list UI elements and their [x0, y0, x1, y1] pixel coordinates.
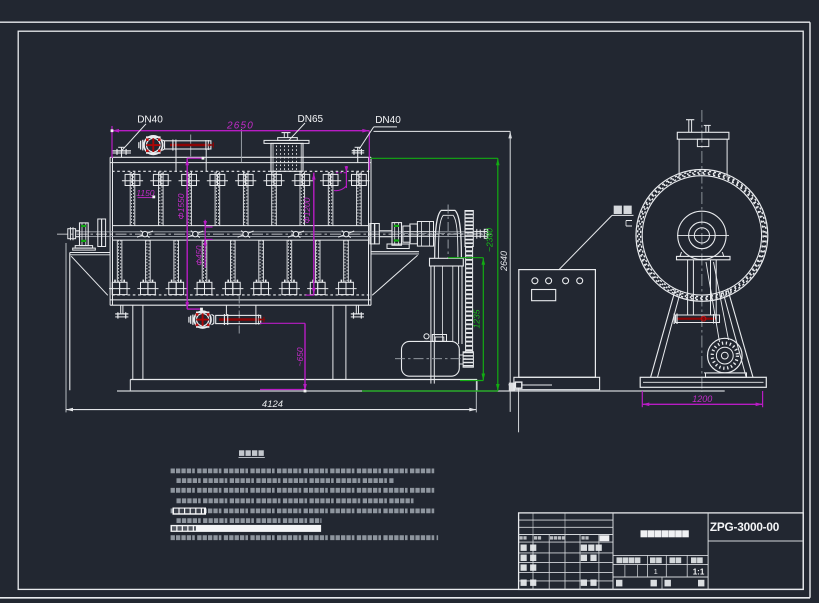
svg-text:1:1: 1:1 — [693, 568, 705, 577]
svg-text:Φ450: Φ450 — [195, 245, 204, 266]
svg-text:2640: 2640 — [499, 251, 509, 272]
svg-text:~650: ~650 — [295, 347, 305, 366]
svg-text:DN40: DN40 — [375, 115, 401, 126]
svg-text:~2380: ~2380 — [484, 228, 494, 252]
svg-text:DN65: DN65 — [298, 114, 324, 125]
svg-text:1: 1 — [654, 567, 658, 576]
svg-text:1200: 1200 — [692, 394, 712, 404]
svg-text:1235: 1235 — [472, 309, 482, 328]
svg-text:2650: 2650 — [226, 120, 254, 131]
svg-text:ZPG-3000-00: ZPG-3000-00 — [710, 520, 780, 534]
svg-text:Φ1200: Φ1200 — [302, 197, 312, 223]
svg-text:1150: 1150 — [136, 188, 155, 198]
svg-text:DN40: DN40 — [137, 115, 163, 126]
svg-text:4124: 4124 — [262, 399, 283, 410]
svg-text:Φ1550: Φ1550 — [176, 193, 186, 219]
